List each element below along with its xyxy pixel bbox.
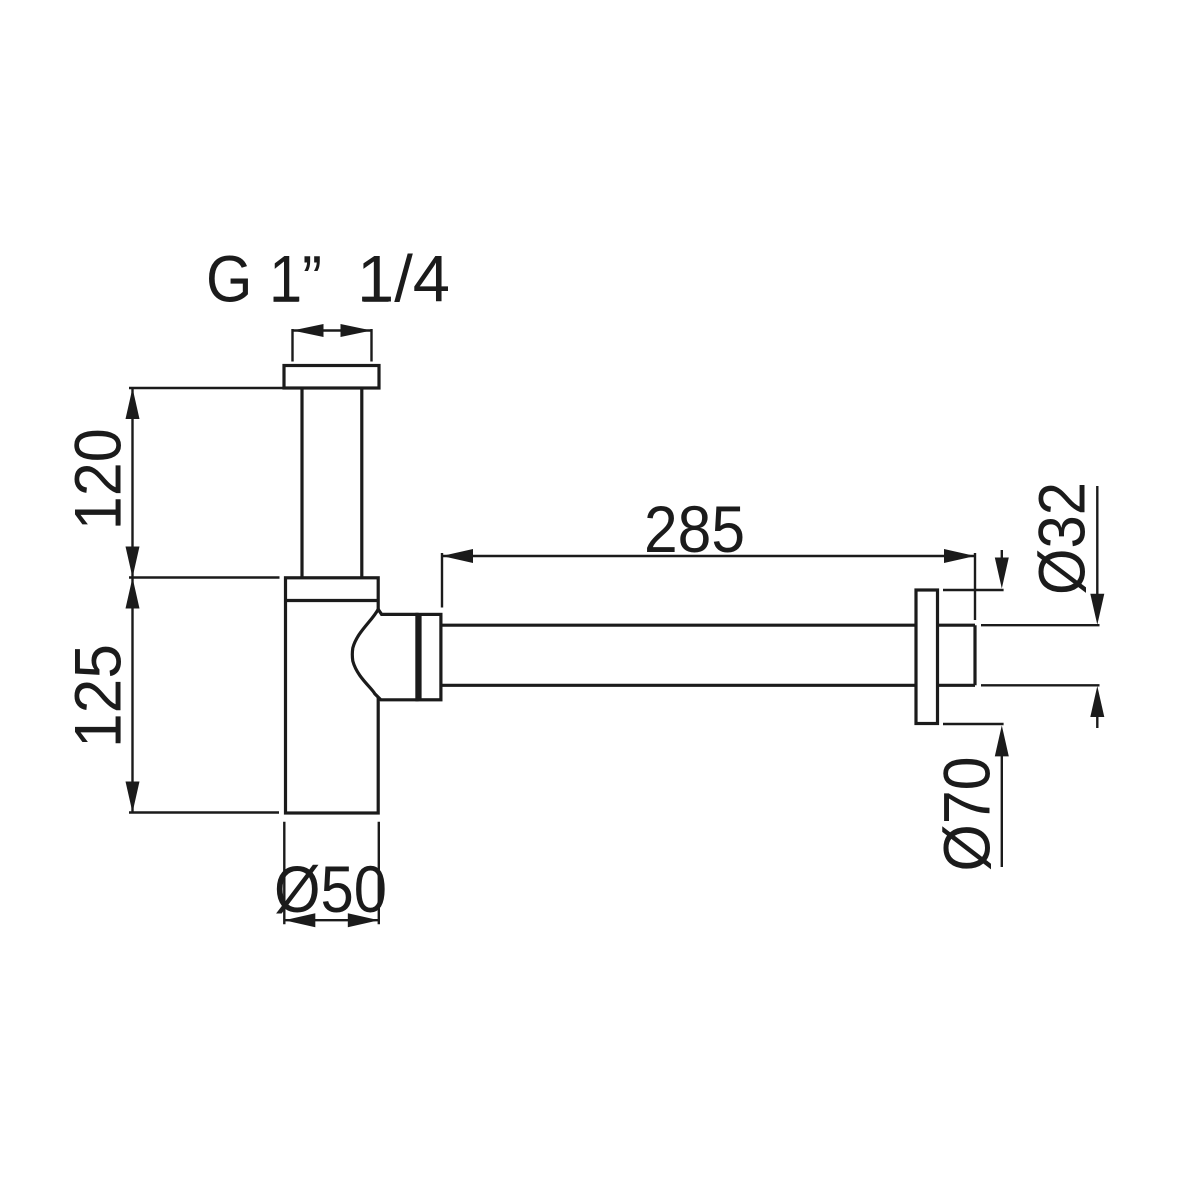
- thread dimension line: [293, 324, 372, 362]
- dimension 285: [442, 492, 975, 620]
- svg-text:Ø70: Ø70: [930, 757, 1004, 872]
- dimension 120 / 125: [61, 388, 284, 813]
- svg-text:G 1”: G 1”: [206, 242, 322, 316]
- trap body: [286, 578, 379, 813]
- compression nut: [416, 614, 441, 699]
- dimension diameter 50: [274, 822, 387, 928]
- svg-text:120: 120: [61, 428, 135, 530]
- wall flange: [916, 590, 938, 724]
- tailpiece pipe: [302, 388, 362, 578]
- svg-text:Ø32: Ø32: [1025, 482, 1099, 595]
- horizontal pipe: [441, 625, 975, 685]
- thread label G 1" 1/4: [206, 242, 450, 316]
- svg-text:Ø50: Ø50: [274, 852, 387, 926]
- dimension diameter 70: [930, 550, 1009, 872]
- elbow outlet: [352, 609, 417, 700]
- svg-text:125: 125: [61, 644, 135, 748]
- top flange: [284, 366, 379, 389]
- svg-text:285: 285: [644, 492, 745, 566]
- svg-text:1/4: 1/4: [357, 242, 450, 316]
- dimension diameter 32: [981, 482, 1104, 728]
